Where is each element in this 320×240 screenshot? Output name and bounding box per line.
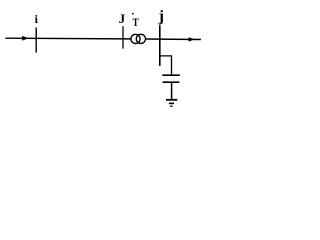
svg-text:J: J	[119, 11, 126, 26]
svg-text:j: j	[158, 8, 164, 25]
svg-text:T: T	[133, 17, 139, 29]
